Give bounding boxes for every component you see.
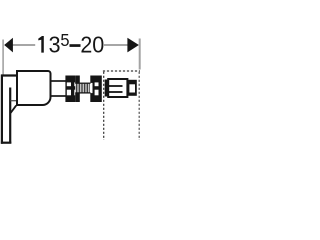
svg-text:5: 5 xyxy=(60,31,69,50)
svg-text:2: 2 xyxy=(80,32,92,58)
svg-text:0: 0 xyxy=(92,32,104,58)
svg-text:3: 3 xyxy=(49,32,61,58)
